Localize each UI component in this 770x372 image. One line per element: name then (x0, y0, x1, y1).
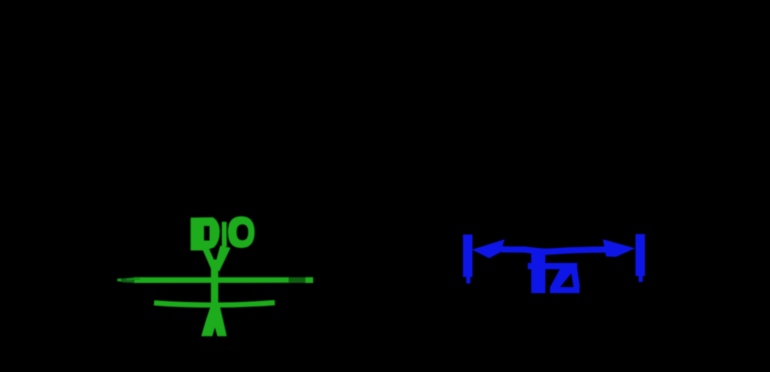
label Do letter o (228, 216, 255, 248)
lens top line bright right end block (306, 277, 314, 283)
lens top line left bright horn (117, 278, 121, 281)
blue left tick tail (466, 277, 470, 284)
down arrow junction fill (210, 260, 222, 272)
lens top line left mid streak (126, 277, 140, 280)
blue right tick bar (636, 234, 646, 276)
up arrowhead below lens (201, 304, 227, 337)
vertical shaft through lens (211, 268, 218, 304)
label fz z bottom bar (550, 287, 580, 293)
lens top line left dim section (121, 277, 135, 283)
label fz z right diagonal band (571, 269, 581, 287)
blue dimension shaft (501, 249, 612, 251)
down arrow right barb (214, 246, 230, 272)
lens top line (134, 277, 289, 283)
label fz z main diagonal band (550, 269, 575, 287)
blue right tick tail (639, 276, 643, 282)
down arrow shaft from Do (222, 222, 227, 247)
label fz letter f stem (531, 251, 545, 293)
lens bottom line (154, 303, 275, 305)
blue right arrowhead (603, 239, 635, 257)
blue left arrowhead (472, 239, 505, 258)
down arrow left barb (201, 245, 218, 272)
blue left tick bar (463, 235, 473, 278)
lens top line dark right section (289, 277, 306, 283)
label Do letter D (191, 217, 220, 250)
label fz crossbar of f and top of z (528, 263, 578, 269)
